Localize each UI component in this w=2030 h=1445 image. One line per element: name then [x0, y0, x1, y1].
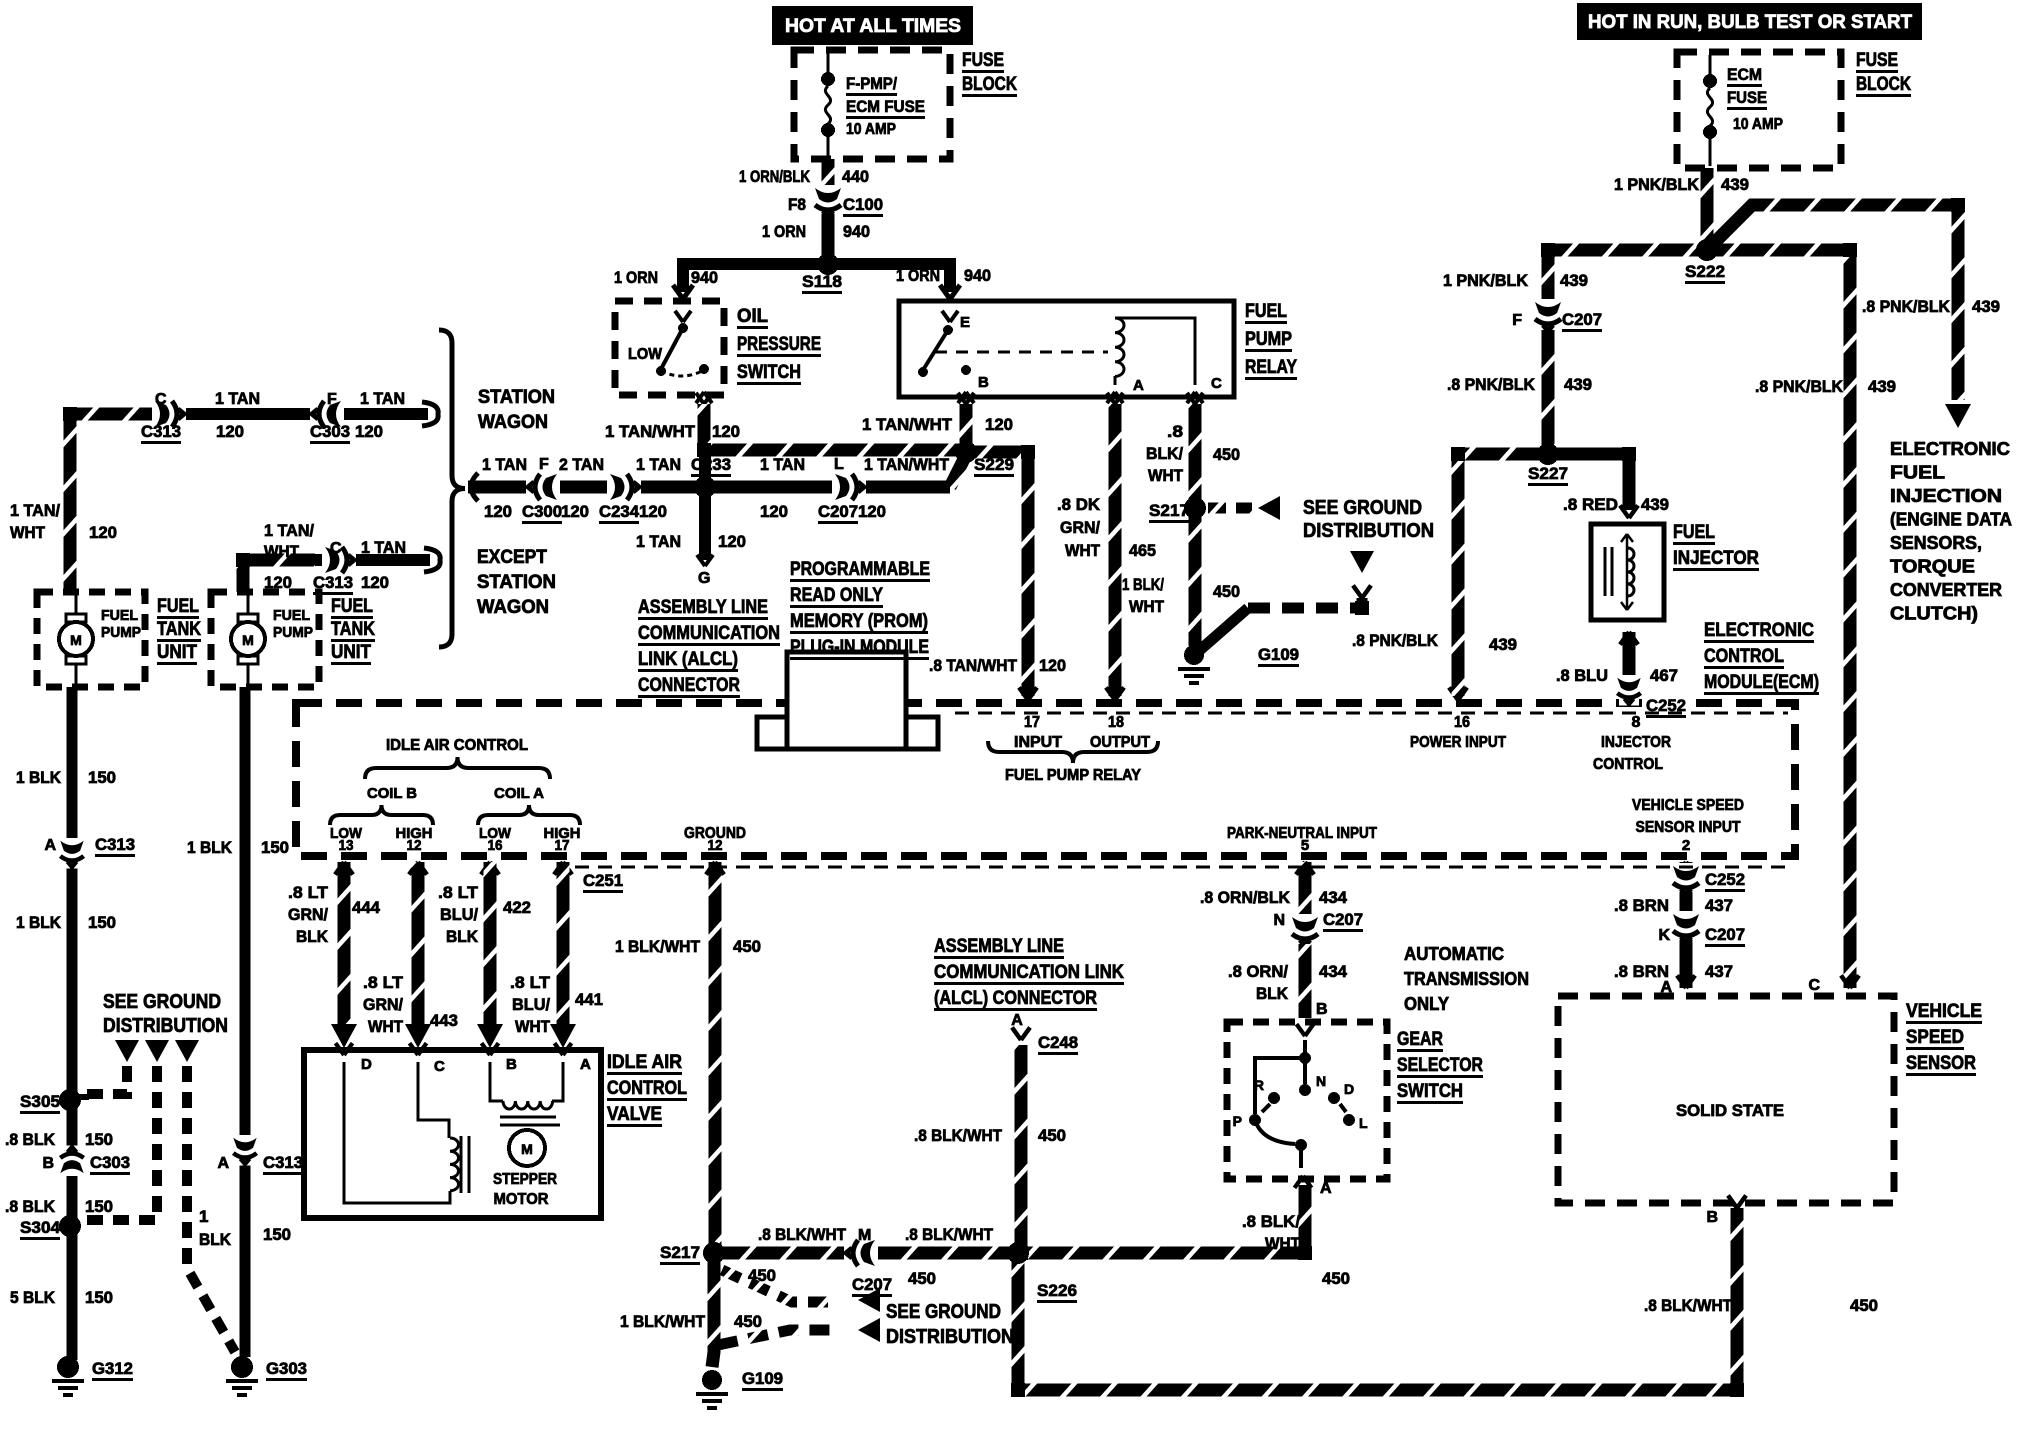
svg-text:1 BLK: 1 BLK	[16, 913, 62, 932]
ECM pin 18 OUTPUT	[1106, 687, 1124, 700]
svg-text:C207: C207	[852, 1275, 892, 1294]
svg-text:LOW: LOW	[628, 346, 663, 363]
svg-text:COIL B: COIL B	[367, 785, 417, 802]
svg-text:SENSOR INPUT: SENSOR INPUT	[1636, 819, 1741, 836]
svg-text:120: 120	[484, 502, 512, 521]
svg-text:C300: C300	[522, 502, 562, 521]
svg-text:UNIT: UNIT	[157, 642, 197, 663]
svg-text:S118: S118	[802, 272, 842, 291]
svg-text:BLK: BLK	[199, 1230, 232, 1249]
svg-text:WHT: WHT	[1129, 597, 1165, 616]
dashed wire to G303	[187, 1066, 235, 1352]
stub to ground distribution at S217	[1208, 503, 1252, 514]
wire .8 LT GRN/WHT 443 ECM pin 12 to IAC C	[409, 862, 427, 875]
svg-text:437: 437	[1705, 962, 1733, 981]
svg-text:WHT: WHT	[1065, 541, 1101, 560]
svg-text:FUEL: FUEL	[157, 596, 199, 617]
stubs to ground distribution (bottom)	[722, 1270, 838, 1302]
svg-text:PRESSURE: PRESSURE	[737, 334, 821, 355]
ground G109 (upper)	[1184, 645, 1204, 665]
svg-text:1 TAN: 1 TAN	[360, 389, 405, 408]
svg-text:150: 150	[85, 1197, 113, 1216]
fuse block F-PMP/ECM (dashed box)	[794, 50, 950, 159]
svg-text:PUMP: PUMP	[101, 624, 141, 641]
svg-text:MODULE(ECM): MODULE(ECM)	[1704, 672, 1819, 693]
svg-text:.8: .8	[1167, 422, 1183, 441]
svg-text:120: 120	[361, 573, 389, 592]
IAC coil B winding (left)	[344, 1062, 450, 1203]
svg-text:ONLY: ONLY	[1404, 994, 1449, 1014]
svg-text:M: M	[242, 632, 254, 648]
svg-text:VEHICLE SPEED: VEHICLE SPEED	[1632, 797, 1744, 814]
svg-text:F: F	[1512, 312, 1522, 329]
banner HOT AT ALL TIMES	[772, 6, 973, 45]
svg-text:18: 18	[1108, 714, 1124, 731]
svg-text:BLU/: BLU/	[440, 905, 478, 924]
svg-text:S304: S304	[20, 1218, 61, 1237]
svg-text:.8 BLK: .8 BLK	[5, 1197, 56, 1216]
svg-text:1 BLK/: 1 BLK/	[1122, 575, 1164, 594]
wire .8 LT BLU/WHT 441 ECM pin 17 to IAC A	[554, 862, 572, 875]
svg-text:ECM: ECM	[1727, 65, 1762, 84]
svg-text:WAGON: WAGON	[478, 412, 548, 433]
svg-text:940: 940	[843, 222, 870, 241]
fuel pump 1 (dashed box)	[37, 592, 145, 687]
svg-text:ECM FUSE: ECM FUSE	[846, 97, 925, 116]
svg-text:C233: C233	[691, 455, 731, 474]
svg-text:1 TAN: 1 TAN	[636, 455, 681, 474]
svg-text:CONNECTOR: CONNECTOR	[638, 675, 740, 696]
svg-text:1 BLK/WHT: 1 BLK/WHT	[615, 937, 701, 956]
fuel pump 2 (dashed box)	[211, 592, 319, 687]
connector C207 pin F	[1535, 299, 1561, 333]
svg-text:439: 439	[1972, 297, 2000, 316]
svg-text:C: C	[434, 1058, 445, 1075]
svg-text:2 TAN: 2 TAN	[559, 455, 604, 474]
svg-text:150: 150	[88, 913, 116, 932]
svg-text:CONTROL: CONTROL	[1704, 646, 1784, 667]
IAC pin D	[336, 1043, 353, 1055]
splice S222	[1697, 240, 1717, 260]
wire 1 ORN 940 left branch to oil pressure switch	[677, 258, 689, 292]
svg-text:FUEL: FUEL	[331, 596, 373, 617]
svg-text:SENSORS,: SENSORS,	[1890, 533, 1982, 553]
svg-text:INJECTOR: INJECTOR	[1673, 548, 1759, 569]
svg-text:G109: G109	[1258, 645, 1299, 664]
svg-text:MOTOR: MOTOR	[494, 1191, 549, 1208]
connector C252 (injector)	[1617, 675, 1640, 706]
svg-text:F-PMP/: F-PMP/	[846, 74, 897, 93]
svg-text:SWITCH: SWITCH	[1397, 1081, 1463, 1102]
fuel pump 2 motor M	[247, 592, 250, 614]
svg-text:1 TAN/WHT: 1 TAN/WHT	[862, 415, 953, 434]
svg-text:LINK (ALCL): LINK (ALCL)	[638, 649, 738, 670]
svg-text:450: 450	[733, 937, 761, 956]
svg-text:120: 120	[639, 502, 667, 521]
svg-text:OIL: OIL	[737, 306, 768, 327]
wire junction drop to C233	[699, 450, 711, 487]
oil pressure switch internals	[675, 311, 691, 322]
svg-text:M: M	[70, 632, 82, 648]
svg-text:.8 LT: .8 LT	[438, 883, 479, 902]
IAC pin B	[482, 1043, 499, 1055]
svg-text:120: 120	[355, 422, 383, 441]
fuel pump relay switch internals	[942, 311, 958, 322]
wire 1 TAN/WHT 120 down to fuel pump 1	[64, 414, 77, 592]
svg-text:C207: C207	[1705, 925, 1745, 944]
svg-text:450: 450	[1213, 445, 1240, 464]
svg-text:E: E	[960, 314, 970, 331]
svg-text:C303: C303	[310, 422, 350, 441]
wire S227 loop to ECM power input 16	[1458, 454, 1548, 696]
svg-text:17: 17	[555, 837, 570, 854]
wire 1 ORN 940 right branch to fuel pump relay	[944, 258, 956, 292]
svg-text:SELECTOR: SELECTOR	[1397, 1055, 1483, 1076]
svg-text:439: 439	[1868, 377, 1896, 396]
fuse ECM FUSE 10 AMP	[1709, 55, 1712, 76]
wire 1 TAN 120 drop to G	[699, 487, 711, 560]
svg-text:12: 12	[708, 837, 723, 854]
svg-text:16: 16	[488, 837, 503, 854]
wire .8 RED 439 S227 to fuel injector	[1548, 454, 1629, 510]
svg-text:13: 13	[339, 837, 354, 854]
splice S118	[818, 254, 838, 274]
svg-text:439: 439	[1489, 635, 1517, 654]
svg-text:17: 17	[1024, 714, 1040, 731]
svg-text:.8 BLK/WHT: .8 BLK/WHT	[1644, 1296, 1733, 1315]
svg-text:C252: C252	[1705, 870, 1745, 889]
svg-text:PUMP: PUMP	[273, 624, 313, 641]
IAC pin C	[410, 1043, 427, 1055]
svg-text:C: C	[330, 540, 342, 557]
svg-text:L: L	[834, 456, 844, 473]
svg-text:READ ONLY: READ ONLY	[790, 585, 883, 606]
svg-text:16: 16	[1454, 714, 1470, 731]
connector C207 pin K	[1673, 911, 1699, 945]
svg-text:940: 940	[691, 268, 718, 287]
svg-text:DISTRIBUTION: DISTRIBUTION	[103, 1015, 228, 1037]
splice S227	[1538, 444, 1558, 464]
fuel injector (box)	[1591, 524, 1664, 620]
svg-text:INPUT: INPUT	[1014, 734, 1062, 751]
svg-text:L: L	[1359, 1115, 1368, 1131]
svg-text:.8 PNK/BLK: .8 PNK/BLK	[1862, 297, 1951, 316]
svg-text:120: 120	[858, 502, 886, 521]
svg-text:1 ORN: 1 ORN	[896, 266, 940, 285]
svg-text:440: 440	[842, 167, 869, 186]
IAC pin A	[555, 1043, 572, 1055]
svg-text:AUTOMATIC: AUTOMATIC	[1404, 944, 1504, 964]
svg-text:422: 422	[503, 898, 531, 917]
wire .8 BLK/WHT 450 ALCL connector to S226	[1012, 1027, 1030, 1040]
svg-text:VEHICLE: VEHICLE	[1906, 1001, 1982, 1022]
svg-text:A: A	[44, 837, 56, 854]
svg-text:.8 TAN/WHT: .8 TAN/WHT	[929, 656, 1018, 675]
svg-text:C207: C207	[818, 502, 858, 521]
svg-text:MEMORY (PROM): MEMORY (PROM)	[790, 611, 928, 632]
svg-text:IDLE AIR: IDLE AIR	[607, 1052, 682, 1073]
svg-text:1 TAN: 1 TAN	[636, 532, 681, 551]
svg-text:COIL A: COIL A	[494, 785, 544, 802]
svg-text:WHT: WHT	[1148, 466, 1184, 485]
wire S118 bus horizontal	[679, 258, 956, 270]
wire .8 BLK/WHT horizontal S217 to C207 to S226 junction	[714, 1247, 1305, 1260]
connector C100 pin F8	[815, 185, 841, 219]
svg-text:WHT: WHT	[1265, 1234, 1301, 1253]
svg-text:BLK: BLK	[446, 927, 479, 946]
svg-text:S305: S305	[20, 1092, 60, 1111]
svg-text:.8 BRN: .8 BRN	[1614, 896, 1669, 915]
svg-text:FUEL: FUEL	[101, 607, 138, 624]
wire row 1 TAN except station wagon (C313)	[243, 554, 430, 566]
svg-text:BLK: BLK	[296, 927, 329, 946]
svg-text:.8 LT: .8 LT	[288, 883, 329, 902]
svg-text:1 ORN/BLK: 1 ORN/BLK	[739, 167, 811, 186]
dashed wire to S305	[84, 1066, 127, 1094]
svg-text:439: 439	[1560, 271, 1588, 290]
svg-text:BLU/: BLU/	[512, 995, 550, 1014]
IAC stepper motor M	[509, 1130, 545, 1166]
svg-text:D: D	[1344, 1081, 1354, 1097]
svg-text:ASSEMBLY LINE: ASSEMBLY LINE	[934, 936, 1064, 957]
svg-text:444: 444	[352, 898, 381, 917]
fuel injector internals	[1621, 534, 1633, 610]
svg-text:5 BLK: 5 BLK	[10, 1288, 56, 1307]
svg-text:TRANSMISSION: TRANSMISSION	[1404, 969, 1529, 989]
svg-text:439: 439	[1564, 375, 1592, 394]
svg-text:.8 LT: .8 LT	[363, 973, 404, 992]
svg-text:POWER INPUT: POWER INPUT	[1410, 734, 1506, 751]
svg-text:CLUTCH): CLUTCH)	[1890, 604, 1978, 624]
wire 1 TAN/WHT horizontal to S229	[704, 444, 966, 457]
IAC coil A winding (top)	[490, 1062, 503, 1101]
svg-text:120: 120	[712, 422, 740, 441]
connector C207 pin L	[832, 474, 866, 500]
svg-text:467: 467	[1650, 666, 1678, 685]
wire 1 TAN/WHT 120 relay pin B to S229	[958, 393, 974, 404]
svg-text:RELAY: RELAY	[1245, 357, 1297, 378]
wire 1 BLK/WHT 450 ECM ground 12 to S217	[706, 862, 724, 875]
svg-text:1 ORN: 1 ORN	[762, 222, 806, 241]
svg-text:.8 ORN/BLK: .8 ORN/BLK	[1200, 888, 1291, 907]
svg-text:FUSE: FUSE	[1727, 88, 1767, 107]
svg-text:1 TAN/: 1 TAN/	[264, 521, 314, 540]
svg-text:SEE GROUND: SEE GROUND	[886, 1301, 1001, 1323]
svg-text:1 BLK: 1 BLK	[187, 838, 233, 857]
svg-text:.8 PNK/BLK: .8 PNK/BLK	[1755, 377, 1844, 396]
svg-text:R: R	[1254, 1077, 1264, 1093]
svg-text:(ENGINE DATA: (ENGINE DATA	[1890, 510, 2012, 530]
svg-text:.8 PNK/BLK: .8 PNK/BLK	[1447, 375, 1536, 394]
wire 1 TAN row with connectors C300 C234 C233 C207	[468, 481, 950, 494]
connector C313 pin A (pump 2)	[233, 1135, 256, 1166]
svg-text:G312: G312	[92, 1359, 133, 1378]
svg-text:.8 BLK/WHT: .8 BLK/WHT	[905, 1225, 994, 1244]
brace grouping station wagon rows	[439, 330, 465, 647]
svg-text:K: K	[1658, 927, 1670, 944]
ECM inner thin dashed line top	[955, 712, 1788, 715]
wire .8 LT BLU/BLK 422 ECM pin 16 to IAC B	[481, 862, 499, 875]
svg-text:B: B	[42, 1155, 54, 1172]
svg-text:.8 BLK/: .8 BLK/	[1242, 1212, 1300, 1231]
svg-text:PROGRAMMABLE: PROGRAMMABLE	[790, 559, 930, 580]
svg-text:WHT: WHT	[368, 1017, 404, 1036]
svg-text:M: M	[858, 1227, 871, 1244]
svg-text:5: 5	[1301, 837, 1309, 854]
svg-text:FUEL: FUEL	[1245, 301, 1287, 322]
splice C233	[696, 478, 714, 496]
svg-text:120: 120	[89, 523, 117, 542]
svg-text:1 TAN: 1 TAN	[482, 455, 527, 474]
fuse block ECM FUSE (dashed box)	[1677, 52, 1841, 168]
svg-text:S226: S226	[1037, 1281, 1077, 1300]
ECM inner thin dashed line bottom	[575, 866, 1788, 869]
svg-text:SWITCH: SWITCH	[737, 362, 801, 383]
svg-text:CONTROL: CONTROL	[607, 1078, 687, 1099]
svg-text:A: A	[1320, 1180, 1332, 1197]
ground G109 (lower)	[702, 1370, 722, 1390]
wire .8 DK GRN/WHT 465 relay pin A to ECM output 18	[1107, 393, 1123, 404]
svg-text:STEPPER: STEPPER	[493, 1171, 557, 1188]
svg-text:BLK/: BLK/	[1146, 444, 1183, 463]
svg-text:1 BLK: 1 BLK	[16, 768, 62, 787]
svg-text:SPEED: SPEED	[1906, 1027, 1964, 1048]
svg-text:GRN/: GRN/	[1060, 518, 1100, 537]
dashed wire to S304	[84, 1066, 157, 1220]
fuel pump relay (box)	[899, 301, 1234, 397]
svg-text:DISTRIBUTION: DISTRIBUTION	[886, 1326, 1014, 1348]
connector C303 pin B (left)	[60, 1145, 83, 1176]
svg-text:C313: C313	[263, 1153, 303, 1172]
splice S304	[60, 1216, 80, 1236]
svg-text:P: P	[1233, 1113, 1242, 1129]
svg-text:150: 150	[88, 768, 116, 787]
svg-text:12: 12	[407, 837, 422, 854]
svg-text:FUEL: FUEL	[1890, 463, 1945, 483]
svg-text:120: 120	[718, 532, 746, 551]
svg-text:F: F	[327, 391, 337, 408]
wire .8 PNK/BLK 439 C207 to S227	[1542, 330, 1555, 452]
ground G312	[57, 1356, 79, 1378]
svg-text:A: A	[1011, 1012, 1023, 1029]
svg-text:450: 450	[1038, 1126, 1066, 1145]
wire .8 PNK/BLK from ground distribution arrow	[1350, 551, 1374, 573]
connector C207 pin N	[1292, 914, 1318, 948]
svg-text:441: 441	[575, 990, 603, 1009]
svg-text:M: M	[521, 1141, 533, 1157]
svg-text:B: B	[978, 374, 989, 391]
svg-text:120: 120	[985, 415, 1013, 434]
ground G303	[231, 1356, 253, 1378]
wire 1 TAN/WHT down to fuel pump 2	[237, 560, 250, 592]
wire S222 diagonal to EFI feed	[1707, 205, 1958, 400]
svg-text:HOT AT ALL TIMES: HOT AT ALL TIMES	[785, 16, 961, 37]
svg-text:TANK: TANK	[157, 619, 201, 640]
svg-text:450: 450	[1322, 1269, 1350, 1288]
svg-text:940: 940	[964, 266, 991, 285]
svg-text:.8 LT: .8 LT	[510, 973, 551, 992]
svg-text:437: 437	[1705, 896, 1733, 915]
svg-text:UNIT: UNIT	[331, 642, 371, 663]
svg-text:FUEL: FUEL	[273, 607, 310, 624]
svg-text:.8 BLU: .8 BLU	[1556, 666, 1608, 685]
banner HOT IN RUN, BULB TEST OR START	[1577, 3, 1922, 40]
svg-text:FUEL PUMP RELAY: FUEL PUMP RELAY	[1005, 767, 1141, 784]
svg-text:F8: F8	[788, 195, 806, 214]
PROM plug-in module	[787, 652, 906, 749]
svg-text:SEE GROUND: SEE GROUND	[103, 991, 221, 1013]
svg-text:HOT IN RUN, BULB TEST OR STAR: HOT IN RUN, BULB TEST OR START	[1588, 12, 1912, 33]
svg-text:C: C	[155, 391, 167, 408]
svg-text:450: 450	[734, 1312, 762, 1331]
wire S222 left to C207 F and S227	[1548, 250, 1707, 308]
svg-text:8: 8	[1632, 714, 1641, 731]
svg-text:STATION: STATION	[478, 387, 555, 408]
wire 1 BLK/WHT 450 S217 to G109	[1189, 508, 1202, 646]
svg-text:1 PNK/BLK: 1 PNK/BLK	[1614, 175, 1700, 194]
idle air control valve (box)	[304, 1050, 601, 1218]
svg-text:443: 443	[430, 1011, 458, 1030]
fuse F-PMP/ECM FUSE 10 AMP	[827, 53, 830, 74]
svg-text:SENSOR: SENSOR	[1906, 1053, 1976, 1074]
svg-text:C248: C248	[1038, 1033, 1078, 1052]
gear selector switch (dashed box)	[1227, 1022, 1387, 1179]
svg-text:ELECTRONIC: ELECTRONIC	[1704, 620, 1814, 641]
wire row 1 TAN station wagon (C313/C303)	[70, 408, 428, 420]
junction S226 dot	[1008, 1243, 1028, 1263]
gear selector switch internals	[1297, 1024, 1314, 1036]
svg-text:ELECTRONIC: ELECTRONIC	[1890, 439, 2010, 459]
svg-text:FUSE: FUSE	[962, 50, 1004, 71]
svg-text:EXCEPT: EXCEPT	[477, 547, 547, 568]
svg-text:GRN/: GRN/	[363, 995, 403, 1014]
connector C234	[607, 474, 641, 500]
svg-text:COMMUNICATION: COMMUNICATION	[638, 623, 780, 644]
svg-text:INJECTOR: INJECTOR	[1601, 734, 1671, 751]
svg-text:SEE GROUND: SEE GROUND	[1303, 497, 1422, 519]
svg-text:465: 465	[1129, 541, 1156, 560]
connector C252 (VSS)	[1673, 863, 1699, 897]
svg-text:N: N	[1273, 912, 1285, 929]
svg-text:120: 120	[1039, 656, 1066, 675]
svg-text:1 ORN: 1 ORN	[614, 268, 658, 287]
svg-text:S217: S217	[660, 1243, 700, 1262]
svg-text:.8 ORN/: .8 ORN/	[1228, 962, 1288, 981]
svg-text:D: D	[361, 1056, 372, 1073]
svg-text:439: 439	[1721, 175, 1749, 194]
svg-text:C313: C313	[95, 835, 135, 854]
connector C207 pin M (bottom)	[844, 1240, 878, 1266]
svg-text:C303: C303	[90, 1153, 130, 1172]
wire .8 BRN 437 ECM pin 2 to VSS A	[1677, 862, 1695, 875]
svg-text:S227: S227	[1528, 464, 1568, 483]
svg-text:C: C	[1808, 977, 1820, 994]
svg-text:1 BLK/WHT: 1 BLK/WHT	[620, 1312, 706, 1331]
svg-text:G: G	[698, 570, 710, 587]
svg-text:10 AMP: 10 AMP	[1733, 116, 1783, 133]
svg-text:OUTPUT: OUTPUT	[1090, 734, 1150, 751]
svg-text:WHT: WHT	[10, 523, 46, 542]
svg-text:N: N	[1316, 1073, 1326, 1089]
svg-text:120: 120	[216, 422, 244, 441]
svg-text:C: C	[1211, 375, 1222, 392]
svg-text:.8 BLK: .8 BLK	[5, 1130, 56, 1149]
svg-text:C207: C207	[1323, 910, 1363, 929]
svg-text:(ALCL) CONNECTOR: (ALCL) CONNECTOR	[934, 988, 1097, 1009]
wire S226 down and right to vehicle speed sensor B	[1018, 1208, 1737, 1390]
arrows from ground distribution (left)	[115, 1040, 139, 1062]
svg-text:1: 1	[199, 1207, 208, 1226]
